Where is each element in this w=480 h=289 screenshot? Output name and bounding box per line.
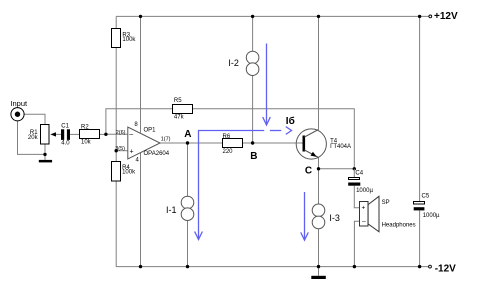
svg-text:Iб: Iб bbox=[286, 115, 295, 127]
svg-text:R2: R2 bbox=[81, 124, 89, 130]
svg-text:I-3: I-3 bbox=[329, 213, 340, 223]
wire input jack signal bbox=[24, 114, 45, 125]
capacitor C4 1000u bbox=[348, 169, 373, 194]
svg-text:Input: Input bbox=[10, 99, 28, 108]
svg-text:1(7): 1(7) bbox=[161, 136, 171, 142]
resistor R2 10k bbox=[80, 124, 100, 145]
capacitor C1 4.0 bbox=[61, 123, 70, 146]
current source I-2 bbox=[228, 51, 259, 75]
wire op-amp pin 4 supply bbox=[140, 152, 142, 267]
svg-text:B: B bbox=[250, 151, 257, 162]
node junctions top rail bbox=[139, 15, 142, 18]
terminal +12V bbox=[429, 11, 458, 22]
capacitor C5 1000u bbox=[414, 194, 441, 219]
wire top +12V rail bbox=[116, 15, 429, 17]
svg-text:2(6): 2(6) bbox=[116, 130, 126, 136]
node A junction bbox=[186, 141, 189, 144]
node C junction bbox=[317, 167, 320, 170]
speaker SP Headphones bbox=[360, 196, 416, 232]
wire I-2 branch bbox=[252, 16, 254, 143]
wire non-inverting input bbox=[116, 150, 128, 152]
svg-text:–: – bbox=[362, 218, 366, 225]
svg-text:+: + bbox=[362, 205, 366, 212]
svg-text:A: A bbox=[184, 129, 191, 140]
svg-text:OP1: OP1 bbox=[144, 128, 157, 134]
wire C5 branch bottom bbox=[419, 210, 421, 266]
svg-text:SP: SP bbox=[382, 200, 390, 206]
wire bottom -12V rail bbox=[116, 266, 429, 268]
node junction non-inverting input bbox=[115, 149, 118, 152]
current source I-1 bbox=[166, 196, 194, 220]
svg-text:3(5): 3(5) bbox=[115, 146, 125, 152]
op-amp OP1 OPA2604 bbox=[115, 122, 170, 163]
wire node C to C4 bbox=[319, 168, 355, 170]
wire feedback net R5 bbox=[106, 109, 354, 169]
current arrow I-1 blue with corner at node A bbox=[195, 131, 265, 240]
svg-text:4.0: 4.0 bbox=[61, 140, 70, 146]
wire C1 to R2 bbox=[70, 133, 80, 135]
svg-text:20k: 20k bbox=[28, 135, 39, 141]
wire R2 to inverting node bbox=[100, 133, 106, 135]
svg-text:-12V: -12V bbox=[435, 264, 456, 275]
svg-text:C: C bbox=[305, 165, 312, 176]
input jack J1 bbox=[10, 99, 28, 121]
svg-text:1000µ: 1000µ bbox=[423, 213, 440, 219]
svg-text:100k: 100k bbox=[122, 37, 136, 43]
wire op-amp pin 8 supply bbox=[140, 16, 142, 132]
ground at I-3 rail bbox=[311, 267, 326, 279]
resistor R5 47k bbox=[173, 98, 193, 120]
current arrow Ib blue dashed to base bbox=[270, 127, 292, 135]
wire R4 to bottom rail bbox=[115, 151, 117, 267]
node junction speaker minus rail bbox=[353, 265, 356, 268]
wire R1 bottom to ground bbox=[44, 144, 46, 160]
transistor T4 GT404A bbox=[296, 129, 351, 159]
wire collector to +12V bbox=[318, 16, 320, 129]
node B junction bbox=[251, 141, 254, 144]
wire input jack sleeve to ground bbox=[18, 121, 46, 154]
svg-text:10k: 10k bbox=[81, 140, 92, 146]
svg-text:C4: C4 bbox=[355, 170, 363, 176]
wire emitter I-3 branch to rail bbox=[318, 158, 320, 267]
resistor R4 100k bbox=[112, 162, 137, 182]
svg-text:–: – bbox=[129, 131, 133, 138]
resistor R3 100k bbox=[112, 29, 137, 48]
node junction inverting input bbox=[104, 133, 107, 136]
resistor R6 220 bbox=[223, 134, 243, 155]
svg-text:ГТ404А: ГТ404А bbox=[330, 144, 351, 150]
current arrow I-2 blue bbox=[263, 44, 271, 126]
svg-text:1000µ: 1000µ bbox=[356, 188, 373, 194]
wire R1 wiper to C1 bbox=[56, 133, 61, 135]
wire C5 branch top bbox=[419, 16, 421, 201]
svg-text:Headphones: Headphones bbox=[382, 222, 416, 228]
wire speaker minus to rail bbox=[354, 221, 359, 266]
svg-text:100k: 100k bbox=[122, 169, 136, 175]
svg-text:47k: 47k bbox=[174, 114, 185, 120]
current source I-3 bbox=[312, 204, 340, 229]
svg-text:R6: R6 bbox=[223, 134, 231, 140]
terminal -12V bbox=[429, 264, 457, 275]
wire inverting input bbox=[106, 133, 128, 135]
node junction C4 top bbox=[353, 167, 356, 170]
ground input bbox=[39, 160, 52, 163]
wire I-1 branch node A to rail bbox=[187, 143, 189, 267]
wire op-amp output to base bbox=[160, 142, 303, 144]
svg-text:R5: R5 bbox=[174, 98, 182, 104]
wire R3-R4 divider vertical bbox=[115, 16, 117, 150]
wire C4 to speaker plus bbox=[354, 186, 360, 208]
svg-text:+12V: +12V bbox=[434, 11, 458, 22]
node junction input ground bbox=[43, 153, 46, 156]
current arrow I-3 blue bbox=[301, 192, 309, 240]
svg-text:C5: C5 bbox=[422, 194, 430, 200]
svg-text:I-1: I-1 bbox=[166, 205, 177, 215]
svg-text:+: + bbox=[130, 149, 134, 156]
resistor R1 20k potentiometer bbox=[28, 125, 56, 145]
node junctions bottom rail bbox=[139, 265, 142, 268]
svg-text:I-2: I-2 bbox=[228, 58, 239, 68]
svg-text:C1: C1 bbox=[61, 123, 69, 129]
svg-text:220: 220 bbox=[223, 149, 234, 155]
svg-text:OPA2604: OPA2604 bbox=[144, 151, 170, 157]
